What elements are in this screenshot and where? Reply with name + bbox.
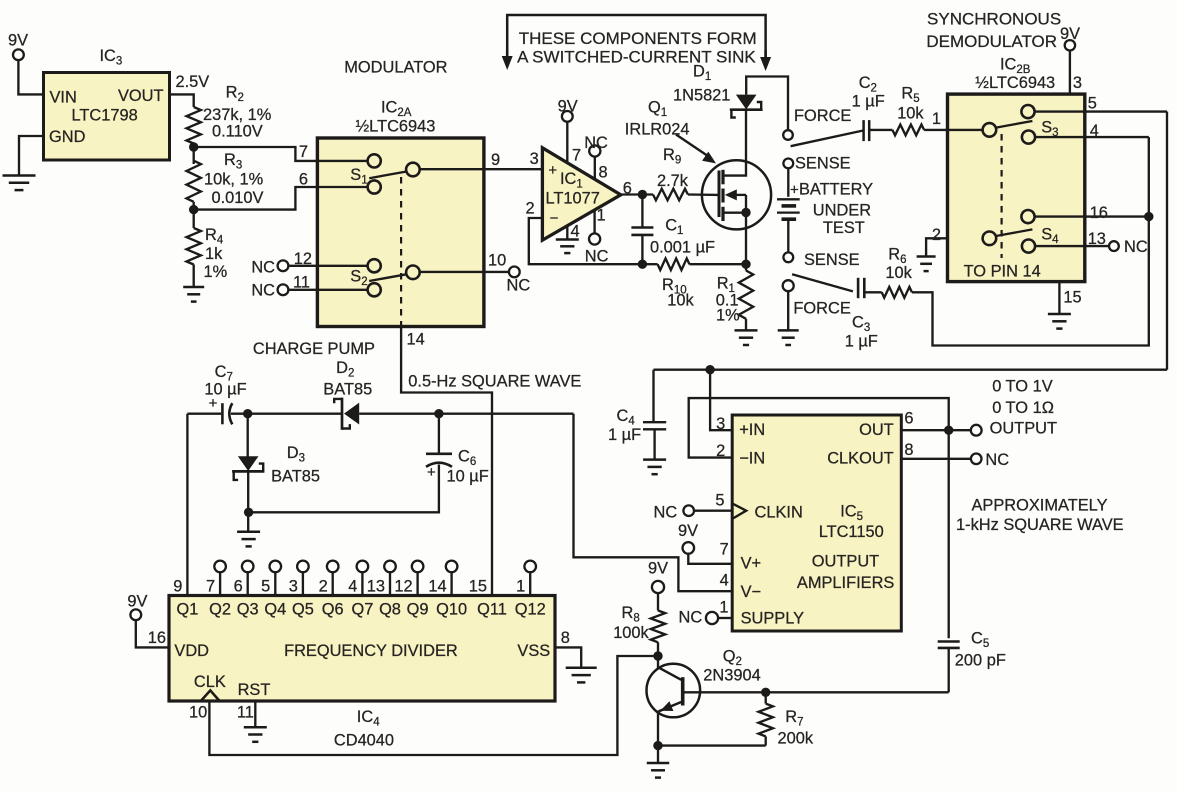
svg-text:OUTPUT: OUTPUT [812,553,879,571]
svg-text:NC: NC [507,277,531,295]
svg-text:4: 4 [571,222,580,240]
svg-text:SENSE: SENSE [804,251,860,269]
svg-text:2: 2 [932,226,941,244]
svg-text:10k: 10k [667,292,694,310]
svg-text:1: 1 [719,599,728,617]
svg-text:10k, 1%: 10k, 1% [204,171,263,189]
svg-text:NC: NC [679,609,703,627]
svg-text:4: 4 [348,577,357,595]
svg-text:TEST: TEST [823,219,865,237]
svg-text:RST: RST [238,681,271,699]
svg-text:3: 3 [1073,74,1082,92]
svg-text:1%: 1% [204,263,228,281]
svg-text:NC: NC [251,282,275,300]
svg-text:8: 8 [904,441,913,459]
svg-text:1k: 1k [205,245,223,263]
svg-text:9V: 9V [127,593,147,611]
svg-text:CLKOUT: CLKOUT [827,450,893,468]
svg-text:APPROXIMATELY: APPROXIMATELY [971,497,1107,515]
svg-text:Q12: Q12 [515,601,546,619]
svg-text:12: 12 [294,250,312,268]
svg-text:2.7k: 2.7k [657,172,689,190]
svg-text:10k: 10k [885,264,912,282]
svg-text:0.001 µF: 0.001 µF [650,239,715,257]
svg-text:CD4040: CD4040 [334,732,394,750]
svg-text:+: + [548,162,557,179]
svg-text:0.5-Hz SQUARE WAVE: 0.5-Hz SQUARE WAVE [408,372,581,390]
svg-text:+: + [209,395,218,412]
svg-text:7: 7 [299,143,308,161]
svg-text:3: 3 [289,577,298,595]
svg-text:1 µF: 1 µF [608,426,641,444]
svg-text:+: + [427,464,436,481]
svg-text:TO PIN 14: TO PIN 14 [964,263,1041,281]
svg-text:6: 6 [234,577,243,595]
svg-text:NC: NC [584,134,608,152]
svg-text:−: − [550,210,559,227]
svg-text:7: 7 [572,147,581,165]
svg-text:4: 4 [1090,122,1099,140]
svg-text:UNDER: UNDER [813,202,871,220]
svg-text:0 TO 1Ω: 0 TO 1Ω [992,399,1054,417]
svg-text:14: 14 [428,577,446,595]
svg-text:CLKIN: CLKIN [755,504,803,522]
svg-text:16: 16 [1090,204,1108,222]
svg-text:BAT85: BAT85 [271,468,320,486]
svg-text:2: 2 [525,199,534,217]
svg-text:1%: 1% [716,307,740,325]
svg-text:DEMODULATOR: DEMODULATOR [926,32,1057,51]
svg-text:200k: 200k [778,730,814,748]
svg-text:3: 3 [716,415,725,433]
svg-text:10 µF: 10 µF [447,468,489,486]
svg-text:6: 6 [623,180,632,198]
svg-text:IRLR024: IRLR024 [625,121,690,139]
svg-text:OUTPUT: OUTPUT [990,420,1057,438]
svg-text:9: 9 [173,577,182,595]
svg-text:7: 7 [206,577,215,595]
svg-text:FORCE: FORCE [793,300,850,318]
svg-text:THESE COMPONENTS FORM: THESE COMPONENTS FORM [519,29,757,48]
svg-text:+: + [790,182,799,199]
svg-text:237k, 1%: 237k, 1% [203,106,271,124]
svg-text:6: 6 [299,171,308,189]
svg-text:4: 4 [720,572,729,590]
svg-text:8: 8 [599,163,608,181]
svg-text:16: 16 [148,629,166,647]
svg-text:Q1: Q1 [176,601,198,619]
svg-text:1: 1 [516,577,525,595]
svg-text:Q5: Q5 [292,601,314,619]
svg-text:GND: GND [49,128,86,146]
svg-text:NC: NC [585,248,609,266]
svg-text:Q3: Q3 [237,601,259,619]
svg-text:5: 5 [715,492,724,510]
svg-text:200 pF: 200 pF [955,651,1006,669]
svg-text:1-kHz SQUARE WAVE: 1-kHz SQUARE WAVE [956,516,1124,534]
svg-text:Q2: Q2 [209,601,231,619]
svg-text:12: 12 [394,577,412,595]
svg-text:9V: 9V [648,560,668,578]
svg-text:NC: NC [251,258,275,276]
svg-text:CLK: CLK [194,673,226,691]
svg-text:Q8: Q8 [379,601,401,619]
svg-text:10k: 10k [897,105,924,123]
svg-text:½LTC6943: ½LTC6943 [975,74,1055,92]
svg-text:2: 2 [319,577,328,595]
svg-text:Q7: Q7 [351,601,373,619]
svg-text:1: 1 [597,206,606,224]
svg-text:9V: 9V [8,32,28,50]
svg-text:0.010V: 0.010V [212,189,264,207]
svg-text:5: 5 [1088,95,1097,113]
svg-text:BATTERY: BATTERY [799,181,873,199]
svg-text:15: 15 [469,577,487,595]
svg-text:9V: 9V [558,98,578,116]
svg-text:10: 10 [189,704,207,722]
svg-text:0.110V: 0.110V [212,122,263,140]
svg-text:LTC1798: LTC1798 [72,107,138,125]
svg-text:OUT: OUT [859,421,894,439]
svg-text:Q6: Q6 [322,601,344,619]
svg-text:1N5821: 1N5821 [673,87,730,105]
svg-text:11: 11 [293,274,310,292]
svg-text:BAT85: BAT85 [323,381,372,399]
svg-text:15: 15 [1063,289,1081,307]
svg-text:FREQUENCY DIVIDER: FREQUENCY DIVIDER [284,642,458,660]
svg-text:9: 9 [491,151,500,169]
svg-text:CHARGE PUMP: CHARGE PUMP [253,340,375,358]
svg-text:2: 2 [716,442,725,460]
svg-text:13: 13 [367,577,385,595]
svg-text:Q10: Q10 [436,601,467,619]
svg-text:AMPLIFIERS: AMPLIFIERS [797,574,895,592]
svg-text:V−: V− [741,583,762,601]
svg-text:LTC1150: LTC1150 [819,523,884,541]
svg-text:SENSE: SENSE [795,155,851,173]
svg-text:10: 10 [488,252,506,270]
svg-text:2N3904: 2N3904 [703,667,760,685]
svg-text:SUPPLY: SUPPLY [741,610,805,628]
svg-text:VOUT: VOUT [118,87,164,105]
svg-text:Q11: Q11 [477,601,507,619]
svg-text:NC: NC [1124,238,1148,256]
svg-text:MODULATOR: MODULATOR [344,59,447,77]
svg-text:14: 14 [407,331,425,349]
svg-text:11: 11 [237,704,254,722]
svg-text:NC: NC [985,451,1009,469]
svg-text:9V: 9V [678,522,698,540]
svg-text:V+: V+ [741,555,762,573]
svg-text:NC: NC [654,504,678,522]
svg-text:−IN: −IN [739,450,765,468]
svg-text:+IN: +IN [739,421,765,439]
svg-text:VSS: VSS [517,642,550,660]
svg-text:8: 8 [561,629,570,647]
svg-text:A SWITCHED-CURRENT SINK: A SWITCHED-CURRENT SINK [517,48,756,67]
svg-text:2.5V: 2.5V [176,73,210,91]
svg-text:100k: 100k [613,624,649,642]
svg-text:VIN: VIN [50,89,77,107]
svg-text:13: 13 [1088,230,1106,248]
svg-text:6: 6 [904,409,913,427]
svg-text:½LTC6943: ½LTC6943 [356,118,436,136]
svg-text:0 TO 1V: 0 TO 1V [992,378,1053,396]
svg-text:Q9: Q9 [407,601,429,619]
svg-text:1 µF: 1 µF [852,93,885,111]
svg-text:FORCE: FORCE [794,107,851,125]
svg-text:1: 1 [932,110,941,128]
svg-text:LT1077: LT1077 [546,190,600,208]
svg-text:5: 5 [261,577,270,595]
svg-text:Q4: Q4 [264,601,286,619]
svg-text:VDD: VDD [174,642,209,660]
svg-text:3: 3 [530,150,539,168]
svg-text:SYNCHRONOUS: SYNCHRONOUS [927,10,1061,29]
svg-text:7: 7 [720,541,729,559]
svg-text:9V: 9V [1060,25,1080,43]
svg-text:1 µF: 1 µF [845,333,878,351]
